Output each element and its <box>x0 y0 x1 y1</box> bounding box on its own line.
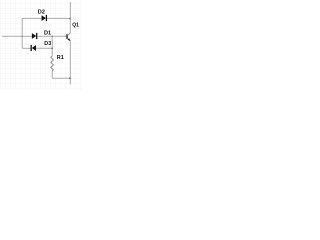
svg-text:D2: D2 <box>38 10 45 16</box>
wire: bottom rail to emitter vertical <box>52 77 70 79</box>
diode D2 triangle <box>42 15 46 21</box>
wire: D2 cathode to collector node <box>47 17 70 19</box>
junction: top rail / collector vertical <box>69 18 71 20</box>
wire: top rail to D2 anode <box>22 17 42 19</box>
transistor Q1 base bar <box>66 34 68 39</box>
wire: riser from base wire down to D3 rail and resistor <box>51 36 53 56</box>
wire: D3 rail from corner to cathode <box>22 47 31 49</box>
diode D3 triangle <box>32 45 36 51</box>
resistor R1 zigzag <box>51 56 54 71</box>
svg-text:Q1: Q1 <box>72 23 79 29</box>
transistor Q1 emitter diagonal <box>67 38 70 40</box>
wire: emitter vertical <box>69 41 71 85</box>
wire: left input lead <box>2 35 22 37</box>
wire: vertical riser x=22 (top corner to D3 corner) <box>21 18 23 48</box>
diode D3 cathode bar <box>30 45 32 51</box>
wire: D3 anode to riser <box>36 47 52 49</box>
transistor Q1 collector diagonal <box>67 33 70 35</box>
svg-text:D3: D3 <box>44 41 51 47</box>
wire: D1 cathode to base <box>37 35 66 37</box>
wire: resistor bottom lead <box>51 71 53 78</box>
wire: collector vertical (top net) <box>69 2 71 33</box>
transistor Q1 emitter arrow <box>68 38 71 41</box>
junction: D3 rail / riser <box>51 48 53 50</box>
svg-text:R1: R1 <box>57 55 64 61</box>
diode D1 cathode bar <box>36 33 38 39</box>
wire: input rail to D1 anode <box>22 35 32 37</box>
diode D1 triangle <box>32 33 36 39</box>
svg-text:D1: D1 <box>44 31 51 37</box>
junction: base wire / D3 riser <box>51 36 53 38</box>
junction: input rail / vertical riser <box>21 36 23 38</box>
diode D2 cathode bar <box>45 15 47 21</box>
junction: bottom rail / emitter vertical <box>69 77 71 79</box>
